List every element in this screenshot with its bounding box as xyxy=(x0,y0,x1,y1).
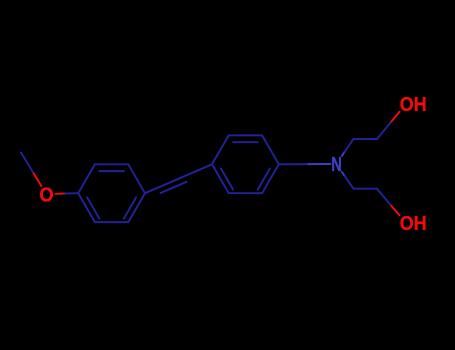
CH2-CH2 upper horizontal xyxy=(354,138,378,140)
ring 2 inner double bond top xyxy=(233,141,257,143)
ring 1 inner double bond lower-right xyxy=(124,197,136,218)
CH2-OH upper (oxygen half) xyxy=(391,112,399,122)
N to CH2 upper (carbon half) xyxy=(345,139,354,151)
ring 1 inner double bond top xyxy=(99,170,123,172)
N to CH2 lower (nitrogen half) xyxy=(342,172,345,176)
vinylene double bond parallel line xyxy=(161,182,187,193)
CH2-OH lower (carbon half) xyxy=(377,189,391,206)
svg-text:O: O xyxy=(39,185,53,207)
N to CH2 lower (carbon half) xyxy=(345,176,354,188)
svg-text:N: N xyxy=(331,154,342,176)
vinylene bridge main line xyxy=(145,164,212,193)
ring 1 inner double bond lower-left xyxy=(87,197,99,218)
CH2-OH lower (oxygen half) xyxy=(391,206,399,215)
methyl CH3 to O bond (oxygen half) xyxy=(34,174,42,187)
svg-text:OH: OH xyxy=(400,94,427,116)
N to CH2 upper (nitrogen half) xyxy=(342,151,345,155)
C-N bond carbon half xyxy=(279,163,309,165)
benzene ring 2 xyxy=(212,135,279,193)
benzene ring 1 xyxy=(78,164,145,222)
svg-text:OH: OH xyxy=(400,213,427,235)
O to ring bond (carbon half) xyxy=(66,192,79,194)
methyl CH3 to O bond (carbon half) xyxy=(21,153,34,174)
ring 2 inner double bond lower-right xyxy=(258,169,270,190)
CH2-OH upper (carbon half) xyxy=(377,122,391,139)
O to ring bond (oxygen half) xyxy=(56,193,66,195)
ring 2 inner double bond lower-left xyxy=(221,169,233,190)
C-N bond nitrogen half xyxy=(309,163,331,165)
CH2-CH2 lower horizontal xyxy=(354,188,378,190)
